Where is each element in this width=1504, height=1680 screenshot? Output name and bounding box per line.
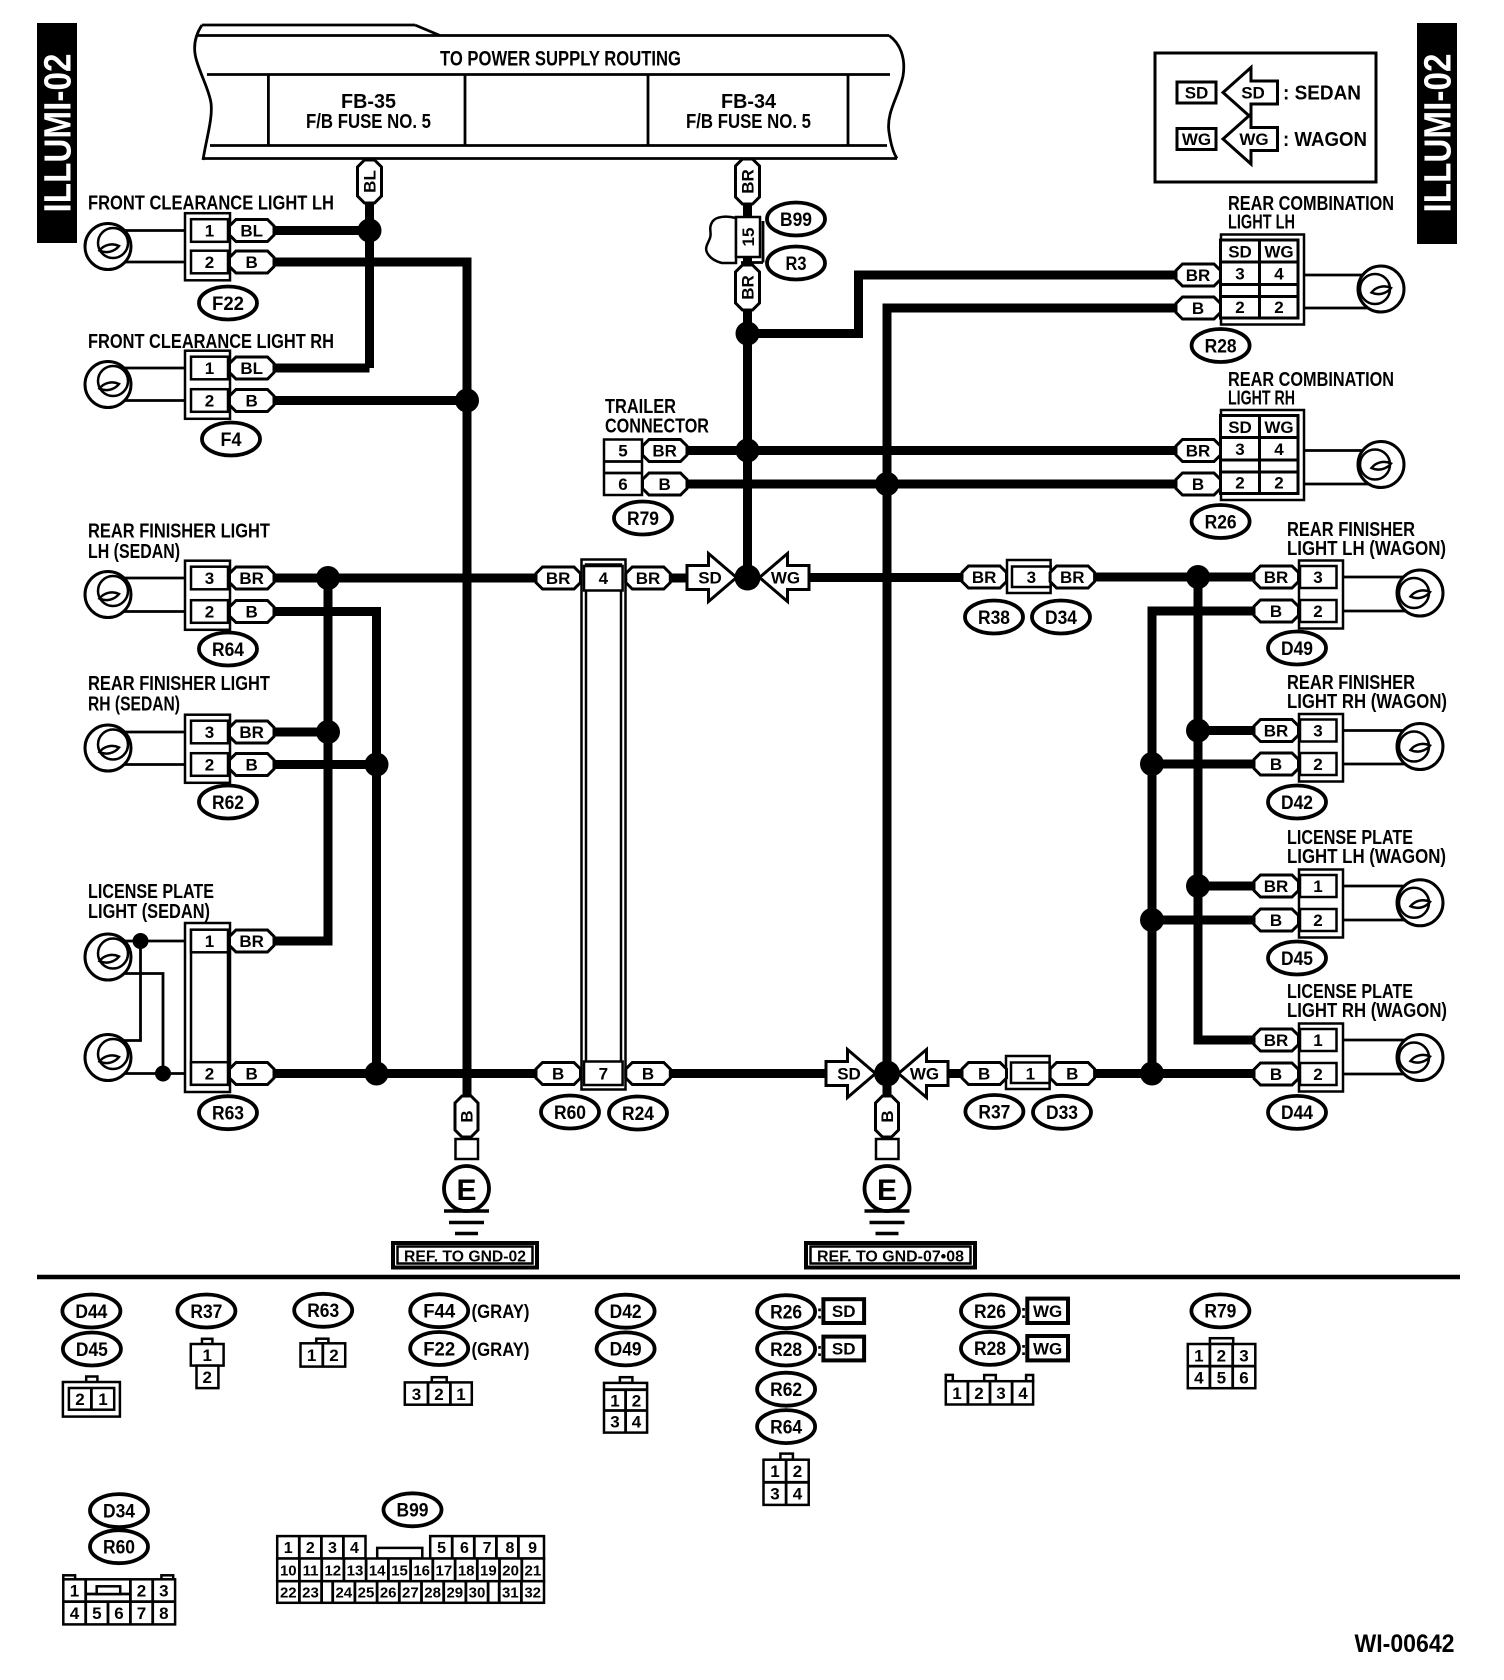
- svg-text:FRONT CLEARANCE LIGHT LH: FRONT CLEARANCE LIGHT LH: [88, 193, 334, 215]
- svg-text:4: 4: [1018, 1384, 1028, 1403]
- wire front clearance RH B row: [274, 396, 467, 405]
- arrow WG wagon top: [760, 554, 810, 602]
- wire bulb leads rear finisher RH wagon: [1343, 729, 1427, 732]
- svg-text:2: 2: [1313, 755, 1322, 774]
- svg-text:2: 2: [205, 1065, 214, 1084]
- svg-text:R63: R63: [307, 1301, 339, 1322]
- legend connector label D44: [62, 1295, 120, 1328]
- svg-text:3: 3: [205, 569, 214, 588]
- connector label R37: [965, 1095, 1023, 1128]
- svg-text:TO POWER SUPPLY ROUTING: TO POWER SUPPLY ROUTING: [440, 48, 681, 71]
- svg-text:BR: BR: [972, 568, 997, 587]
- svg-text:R26: R26: [770, 1303, 802, 1324]
- power supply bus ribbon: [195, 25, 904, 160]
- svg-text:D33: D33: [1046, 1103, 1078, 1124]
- svg-text:1: 1: [205, 932, 214, 951]
- wire front clearance LH BL row: [274, 226, 370, 235]
- svg-text:LIGHT LH (WAGON): LIGHT LH (WAGON): [1287, 538, 1446, 560]
- page banner right ILLUMI-02: [1417, 23, 1460, 244]
- svg-text:16: 16: [413, 1562, 430, 1579]
- svg-text:1: 1: [610, 1392, 619, 1411]
- connector label D34: [1032, 601, 1090, 634]
- svg-text:R62: R62: [770, 1380, 802, 1401]
- svg-text:(GRAY): (GRAY): [472, 1340, 530, 1361]
- svg-text:3: 3: [996, 1384, 1005, 1403]
- svg-text:27: 27: [402, 1585, 419, 1602]
- svg-text:SD: SD: [1241, 84, 1265, 103]
- svg-text:2: 2: [1313, 602, 1322, 621]
- svg-text:LIGHT (SEDAN): LIGHT (SEDAN): [88, 901, 210, 923]
- junction BR trailer row: [736, 439, 760, 463]
- svg-text:2: 2: [1313, 1065, 1322, 1084]
- connector label F4: [202, 423, 260, 456]
- svg-text:D34: D34: [103, 1501, 135, 1522]
- legend connector label R26 sedan: [757, 1295, 815, 1328]
- svg-text:BR: BR: [546, 569, 571, 588]
- svg-text:SD: SD: [1228, 243, 1252, 262]
- svg-text:R60: R60: [103, 1538, 135, 1559]
- svg-text:WG: WG: [1033, 1302, 1062, 1321]
- svg-text:: WAGON: : WAGON: [1283, 129, 1367, 151]
- connector label D44: [1268, 1096, 1326, 1129]
- svg-text:SD: SD: [1228, 418, 1252, 437]
- wire license sedan bulb2 to BR junction: [120, 941, 141, 1041]
- svg-text:LIGHT RH: LIGHT RH: [1228, 388, 1295, 410]
- connector R37/D33 B 1 B: [962, 1056, 1095, 1089]
- svg-text:R24: R24: [622, 1104, 654, 1125]
- svg-text:29: 29: [446, 1585, 463, 1602]
- svg-text:BR: BR: [1264, 1031, 1289, 1050]
- svg-text:B: B: [1270, 755, 1282, 774]
- wire tag BR left of strip: [536, 567, 581, 589]
- wire rear finisher LH sedan BR row: [274, 574, 536, 583]
- wire BR from bus through fuse 15: [743, 159, 752, 334]
- svg-text:3: 3: [1313, 568, 1322, 587]
- svg-text:2: 2: [1274, 298, 1283, 317]
- svg-text:BR: BR: [652, 442, 677, 461]
- junction B rear finisher RH sedan: [365, 753, 389, 777]
- legend pinout D44/D45: [63, 1377, 120, 1417]
- wire tag BR above fuse: [736, 159, 760, 204]
- legend connector label D49: [597, 1332, 655, 1365]
- svg-text:2: 2: [205, 756, 214, 775]
- wire B from rear combination LH down: [887, 308, 1176, 1098]
- junction BR below fuse: [736, 322, 760, 346]
- svg-text:WG: WG: [1033, 1339, 1062, 1358]
- wire bulb leads rear finisher LH wagon: [1343, 576, 1427, 579]
- wire bulb leads front clearance LH: [112, 229, 186, 232]
- svg-text:B: B: [659, 475, 671, 494]
- junction B license LH wagon: [1140, 908, 1164, 932]
- svg-text:BL: BL: [240, 222, 263, 241]
- svg-text:6: 6: [460, 1540, 469, 1557]
- wire tag B above ground mid: [876, 1096, 899, 1137]
- legend connector label R28 sedan: [757, 1333, 815, 1366]
- wire rear finisher RH sedan BR row: [274, 728, 328, 737]
- connector label D45: [1268, 942, 1326, 975]
- svg-text:1: 1: [202, 1346, 211, 1365]
- wire tag B left of strip bottom: [536, 1063, 581, 1085]
- svg-text:24: 24: [335, 1585, 352, 1602]
- wire tag B above ground left: [455, 1096, 478, 1137]
- connector label R60: [541, 1096, 599, 1129]
- wire BR branch to license LH wagon: [1198, 882, 1254, 891]
- svg-text:D45: D45: [76, 1340, 108, 1361]
- bulb rear combination LH: [1358, 266, 1404, 312]
- legend box SD for R26: [823, 1299, 864, 1323]
- wire BR spine to SD/WG junction: [743, 334, 752, 578]
- svg-text:B: B: [1270, 602, 1282, 621]
- wire BR to rear combination LH: [748, 275, 1177, 334]
- svg-text:2: 2: [202, 1368, 211, 1387]
- wire license sedan bulb1 to pin1: [110, 940, 186, 943]
- svg-text:LICENSE PLATE: LICENSE PLATE: [88, 881, 214, 903]
- connector R62 rear finisher RH sedan: [185, 715, 230, 783]
- svg-text:4: 4: [1274, 440, 1284, 459]
- svg-text:30: 30: [469, 1585, 486, 1602]
- page banner left ILLUMI-02: [37, 23, 80, 243]
- wire WG arrow to R37 connector: [948, 1069, 964, 1078]
- legend pinout B99: [277, 1536, 544, 1603]
- svg-text:REAR FINISHER LIGHT: REAR FINISHER LIGHT: [88, 521, 270, 543]
- junction B bottom left: [365, 1062, 389, 1086]
- svg-text:5: 5: [437, 1540, 446, 1557]
- wire B branch rear finisher RH wagon: [1152, 760, 1254, 769]
- svg-text:3: 3: [1235, 265, 1244, 284]
- wire B from rear finisher LH wagon down: [1152, 611, 1254, 1074]
- connector R79 trailer: [604, 440, 687, 496]
- svg-text:2: 2: [1235, 474, 1244, 493]
- svg-text:4: 4: [1194, 1369, 1204, 1388]
- svg-text:R37: R37: [978, 1102, 1010, 1123]
- svg-text:FB-34: FB-34: [721, 91, 777, 113]
- wire R38 connector to rear finisher LH wagon: [1094, 573, 1254, 582]
- wire tag BR below fuse: [736, 265, 760, 310]
- bulb license plate sedan upper: [85, 934, 131, 980]
- wire front clearance LH B row: [274, 262, 467, 1098]
- junction B front clearance: [455, 389, 479, 413]
- svg-text:WG: WG: [1182, 130, 1211, 149]
- svg-text:26: 26: [380, 1585, 397, 1602]
- svg-text:11: 11: [303, 1562, 319, 1579]
- svg-text:WG: WG: [1264, 418, 1293, 437]
- svg-text:F/B FUSE NO. 5: F/B FUSE NO. 5: [686, 111, 811, 133]
- svg-text:R26: R26: [974, 1302, 1006, 1323]
- svg-text:2: 2: [974, 1384, 983, 1403]
- wire tag BL: [358, 160, 382, 203]
- svg-text:2: 2: [1217, 1347, 1226, 1366]
- legend connector label R64: [757, 1410, 815, 1443]
- wire bulb leads license RH wagon: [1343, 1039, 1427, 1042]
- svg-text:2: 2: [632, 1392, 641, 1411]
- svg-text:1: 1: [307, 1346, 316, 1365]
- svg-text:R79: R79: [1204, 1302, 1236, 1323]
- wire rear finisher LH sedan B row down: [274, 612, 377, 1074]
- wire license sedan bulb1 to B junction: [118, 974, 163, 1074]
- junction SD/WG top: [735, 565, 761, 591]
- svg-text:BL: BL: [240, 359, 263, 378]
- wire trailer connector B row: [687, 480, 1176, 489]
- svg-text:B99: B99: [397, 1501, 429, 1522]
- ground E left: [444, 1139, 489, 1234]
- svg-text:19: 19: [480, 1562, 497, 1579]
- svg-text:7: 7: [137, 1604, 146, 1623]
- legend connector label D42: [597, 1295, 655, 1328]
- svg-text:2: 2: [329, 1346, 338, 1365]
- wire R37 connector to license RH wagon: [1094, 1069, 1254, 1078]
- svg-text:3: 3: [328, 1540, 337, 1557]
- svg-text:4: 4: [350, 1540, 359, 1557]
- svg-text:14: 14: [369, 1562, 386, 1579]
- svg-text:REF. TO GND-07•08: REF. TO GND-07•08: [817, 1248, 964, 1265]
- svg-text:BR: BR: [1186, 266, 1211, 285]
- junction B rear finisher RH wagon: [1140, 752, 1164, 776]
- svg-text:BL: BL: [361, 170, 380, 193]
- svg-text:BR: BR: [739, 275, 758, 300]
- wire front clearance RH BL row: [274, 364, 370, 373]
- svg-text:F4: F4: [221, 430, 242, 451]
- svg-text:R64: R64: [770, 1417, 802, 1438]
- svg-text:WG: WG: [1264, 243, 1293, 262]
- connector D49 rear finisher LH wagon: [1299, 561, 1343, 629]
- svg-text:B99: B99: [780, 210, 812, 231]
- svg-text:B: B: [246, 253, 258, 272]
- svg-text:32: 32: [524, 1585, 541, 1602]
- connector R28 rear combination LH: [1176, 235, 1304, 325]
- svg-text:LIGHT LH: LIGHT LH: [1228, 212, 1295, 234]
- legend pinout R79: [1188, 1338, 1256, 1388]
- connector D45 license plate LH wagon: [1299, 870, 1343, 938]
- svg-text:2: 2: [1313, 911, 1322, 930]
- svg-text:R3: R3: [786, 254, 807, 275]
- svg-text:SD: SD: [832, 1302, 856, 1321]
- wire bulb leads license LH wagon: [1343, 885, 1427, 888]
- svg-text:ILLUMI-02: ILLUMI-02: [1418, 54, 1460, 213]
- arrow WG wagon bottom: [899, 1050, 949, 1098]
- legend box SD for R28: [823, 1337, 864, 1361]
- svg-text:SD: SD: [698, 569, 722, 588]
- svg-text:18: 18: [458, 1562, 475, 1579]
- bulb license plate LH wagon: [1397, 880, 1443, 926]
- svg-text:(GRAY): (GRAY): [472, 1302, 530, 1323]
- svg-text:2: 2: [205, 392, 214, 411]
- svg-text:13: 13: [347, 1562, 364, 1579]
- svg-text:1: 1: [952, 1384, 961, 1403]
- svg-text:1: 1: [1026, 1065, 1035, 1084]
- svg-text:31: 31: [502, 1585, 519, 1602]
- svg-text:F22: F22: [423, 1339, 455, 1360]
- connector F22 front clearance LH: [185, 213, 230, 280]
- svg-text:E: E: [456, 1174, 476, 1207]
- svg-text:B: B: [1192, 299, 1204, 318]
- bulb rear finisher RH sedan: [85, 725, 131, 771]
- svg-text:1: 1: [770, 1462, 779, 1481]
- svg-text:WG: WG: [1239, 130, 1268, 149]
- connector label D49: [1268, 632, 1326, 665]
- svg-text:D49: D49: [1281, 639, 1313, 660]
- svg-text:6: 6: [114, 1604, 123, 1623]
- wire BR branch to rear finisher RH wagon: [1198, 726, 1254, 735]
- legend pinout D42/D49: [604, 1377, 647, 1432]
- svg-text:1: 1: [70, 1582, 79, 1601]
- junction B bottom right: [1140, 1062, 1164, 1086]
- legend connector label F44: [410, 1294, 468, 1327]
- bulb license plate sedan lower: [85, 1035, 131, 1081]
- svg-text:RH (SEDAN): RH (SEDAN): [88, 694, 180, 716]
- legend connector label R79: [1191, 1294, 1249, 1327]
- svg-text:B: B: [642, 1065, 654, 1084]
- svg-text:12: 12: [324, 1562, 341, 1579]
- wire BL from bus to front clearance lights: [365, 159, 374, 368]
- svg-text:B: B: [1066, 1065, 1078, 1084]
- wire bottom B bus left part: [274, 1069, 827, 1078]
- svg-text:D44: D44: [75, 1302, 107, 1323]
- svg-text:B: B: [552, 1065, 564, 1084]
- arrow SD sedan bottom: [826, 1050, 876, 1098]
- legend pinout R62/R64: [764, 1454, 809, 1505]
- svg-text:8: 8: [505, 1540, 514, 1557]
- legend box SD/WG sedan wagon: [1155, 53, 1376, 182]
- svg-text:6: 6: [618, 475, 627, 494]
- svg-text:E: E: [877, 1174, 897, 1207]
- svg-text:D34: D34: [1045, 608, 1077, 629]
- svg-text:SD: SD: [1185, 84, 1209, 103]
- svg-text:4: 4: [1274, 265, 1284, 284]
- svg-text:R28: R28: [1205, 336, 1237, 357]
- svg-text:5: 5: [1217, 1369, 1226, 1388]
- svg-text:25: 25: [358, 1585, 375, 1602]
- svg-text:B: B: [246, 603, 258, 622]
- separator line: [37, 1275, 1460, 1280]
- svg-text:BR: BR: [239, 569, 264, 588]
- bulb rear combination RH: [1358, 442, 1404, 488]
- junction BR rear finisher LH wagon: [1186, 565, 1210, 589]
- svg-text:20: 20: [502, 1562, 519, 1579]
- svg-text:5: 5: [92, 1604, 101, 1623]
- svg-text:F/B FUSE NO. 5: F/B FUSE NO. 5: [306, 111, 431, 133]
- svg-text:3: 3: [1313, 722, 1322, 741]
- svg-text:7: 7: [483, 1540, 492, 1557]
- legend connector label R62: [757, 1373, 815, 1406]
- bulb rear finisher RH wagon: [1397, 724, 1443, 770]
- connector label F22: [199, 287, 257, 320]
- svg-text:B: B: [878, 1110, 897, 1122]
- svg-text:D49: D49: [610, 1340, 642, 1361]
- fuse 15 B99: [706, 217, 763, 263]
- wire BR vertical right side: [1198, 577, 1254, 1040]
- connector label B99: [767, 203, 825, 236]
- svg-text:D44: D44: [1281, 1103, 1313, 1124]
- junction BL front clearance: [358, 219, 382, 243]
- svg-text:BR: BR: [1264, 877, 1289, 896]
- wire bulb leads rear finisher RH sedan: [112, 731, 186, 734]
- svg-text:WI-00642: WI-00642: [1355, 1630, 1455, 1658]
- svg-text:ILLUMI-02: ILLUMI-02: [38, 54, 80, 213]
- svg-text:3: 3: [1239, 1347, 1248, 1366]
- ground E mid: [865, 1139, 910, 1234]
- svg-text:R60: R60: [554, 1103, 586, 1124]
- connector R63 license plate sedan: [185, 923, 274, 1092]
- bulb rear finisher LH wagon: [1397, 570, 1443, 616]
- svg-text:9: 9: [528, 1540, 537, 1557]
- svg-text:BR: BR: [1264, 568, 1289, 587]
- wire rear finisher RH sedan B row: [274, 760, 377, 769]
- svg-text:4: 4: [599, 569, 609, 588]
- svg-text:2: 2: [1274, 474, 1283, 493]
- svg-text:1: 1: [98, 1390, 107, 1409]
- legend box WG for R26: [1027, 1299, 1068, 1323]
- legend pinout R63: [301, 1339, 346, 1367]
- junction license sedan bulb1: [133, 933, 149, 949]
- legend pinout F44/F22: [405, 1377, 472, 1405]
- svg-text:5: 5: [618, 442, 627, 461]
- svg-text:BR: BR: [1186, 442, 1211, 461]
- connector F4 front clearance RH: [185, 351, 230, 419]
- ref box GND-07-08: [806, 1243, 975, 1268]
- svg-text:3: 3: [205, 723, 214, 742]
- svg-text:10: 10: [280, 1562, 297, 1579]
- svg-text:R37: R37: [190, 1302, 222, 1323]
- connector D44 license plate RH wagon: [1299, 1024, 1343, 1092]
- wire license sedan bulb2 to pin2: [110, 1072, 186, 1075]
- connector label D42: [1268, 786, 1326, 819]
- svg-text:23: 23: [302, 1585, 319, 1602]
- svg-text:D45: D45: [1281, 949, 1313, 970]
- connector R38/D34 BR 3 BR: [962, 560, 1095, 593]
- legend connector label R37: [177, 1295, 235, 1328]
- svg-text:1: 1: [205, 359, 214, 378]
- svg-text:B: B: [246, 392, 258, 411]
- svg-text:6: 6: [1239, 1369, 1248, 1388]
- legend connector label D34: [90, 1494, 148, 1527]
- legend pinout R37: [191, 1339, 224, 1388]
- svg-text:R79: R79: [627, 509, 659, 530]
- wire bulb leads rear combination LH: [1304, 274, 1388, 277]
- bulb license plate RH wagon: [1397, 1035, 1443, 1081]
- svg-text:SD: SD: [837, 1065, 861, 1084]
- svg-text:2: 2: [75, 1390, 84, 1409]
- wire BR octagon to SD arrow: [670, 574, 688, 583]
- svg-text:B: B: [1270, 1065, 1282, 1084]
- connector label R64: [199, 633, 257, 666]
- junction BR rear finisher LH sedan: [316, 566, 340, 590]
- svg-text:SD: SD: [832, 1340, 856, 1359]
- svg-text:3: 3: [770, 1485, 779, 1504]
- svg-text:7: 7: [599, 1065, 608, 1084]
- legend box WG for R28: [1027, 1336, 1068, 1360]
- legend connector label F22: [410, 1332, 468, 1365]
- svg-text:1: 1: [456, 1385, 465, 1404]
- legend connector label R26 wagon: [961, 1295, 1019, 1328]
- svg-text:4: 4: [632, 1413, 642, 1432]
- wire bulb leads front clearance RH: [112, 367, 186, 370]
- wire trailer connector BR row: [687, 446, 1176, 455]
- svg-text:B: B: [978, 1065, 990, 1084]
- wire bulb leads rear finisher LH sedan: [112, 577, 186, 580]
- svg-text:BR: BR: [1264, 722, 1289, 741]
- svg-text:4: 4: [70, 1604, 80, 1623]
- svg-text:1: 1: [1194, 1347, 1203, 1366]
- connector label R24: [609, 1097, 667, 1130]
- svg-text:8: 8: [159, 1604, 168, 1623]
- junction license sedan bulb2: [155, 1066, 171, 1082]
- svg-text:1: 1: [205, 222, 214, 241]
- svg-text:R28: R28: [974, 1339, 1006, 1360]
- svg-text:2: 2: [793, 1462, 802, 1481]
- arrow SD sedan top: [687, 554, 737, 602]
- wire tag B right of strip bottom: [626, 1063, 671, 1085]
- connector label R62: [199, 786, 257, 819]
